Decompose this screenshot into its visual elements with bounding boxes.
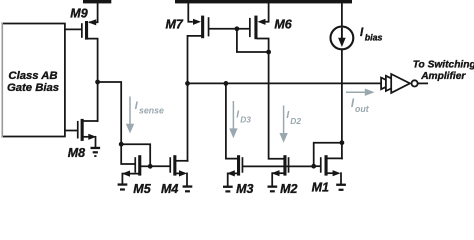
node E: M6 drain / diode tie junction xyxy=(266,50,271,55)
transistor M5 (NMOS) xyxy=(122,155,150,183)
wire M6 drain down to M2 drain (crosses output line) xyxy=(269,52,284,159)
M9 drain wire xyxy=(88,39,98,82)
M1 drain wire xyxy=(328,157,342,159)
svg-text:M9: M9 xyxy=(70,7,87,21)
M6 source wire xyxy=(264,3,269,22)
ground (M4) xyxy=(183,185,193,192)
M3 source wire xyxy=(228,172,237,174)
svg-text:To Switching: To Switching xyxy=(413,60,474,71)
Class AB Gate Bias block xyxy=(2,24,65,137)
transistor M9 (PMOS) xyxy=(65,3,98,82)
wire I_bias down through output line to M1 drain xyxy=(341,49,343,158)
wire node A down to M8 drain xyxy=(97,82,99,121)
M9 channel bar xyxy=(85,21,88,40)
M8 channel bar xyxy=(81,119,84,141)
transistor M6 (PMOS) xyxy=(249,3,269,52)
node I: I_bias / M1 diode junction xyxy=(340,140,345,145)
transistor M7 (PMOS, mirrored) xyxy=(188,3,210,83)
transistor M4 (NMOS) xyxy=(169,155,187,185)
transistor M2 (NMOS, mirrored) xyxy=(272,155,290,185)
M5 source down wire xyxy=(121,174,123,184)
M8 gate wire xyxy=(65,130,77,132)
svg-text:Amplifier: Amplifier xyxy=(420,71,466,82)
transistor M1 (NMOS) xyxy=(320,155,342,183)
svg-text:M2: M2 xyxy=(280,182,297,194)
M8 drain wire xyxy=(84,120,98,122)
M5 source wire xyxy=(124,173,139,175)
I_bias circle xyxy=(331,27,354,50)
node C: M5 drain / M4 gate junction xyxy=(148,164,153,169)
M9 gate wire xyxy=(65,28,81,30)
M8 source arrow xyxy=(88,134,96,140)
M4 source down wire xyxy=(186,173,188,185)
M1 diode loop wire xyxy=(314,143,342,167)
M4 gate bar xyxy=(169,157,171,173)
M2 source wire xyxy=(273,172,284,174)
M8 source wire xyxy=(84,136,89,138)
M4 source arrow xyxy=(179,170,187,176)
M2 gate bar xyxy=(288,157,290,173)
M9 gate bar xyxy=(81,23,83,38)
svg-text:I: I xyxy=(236,109,239,120)
output line xyxy=(188,82,381,84)
svg-text:bias: bias xyxy=(365,33,383,43)
buffer output wire xyxy=(418,82,427,84)
M4 channel bar xyxy=(173,155,176,175)
buffer chain (inverter 2) xyxy=(386,76,402,91)
gate line M3-M2-M1 xyxy=(243,165,313,167)
M1 source down wire xyxy=(340,173,342,183)
M7 channel bar xyxy=(201,16,204,39)
M5 channel bar xyxy=(138,155,141,175)
svg-text:M1: M1 xyxy=(312,181,329,195)
M3 channel bar xyxy=(237,155,240,175)
buffer chain (inverter 1) xyxy=(381,78,394,90)
buffer chain (inverter 3) xyxy=(391,74,410,93)
wire node F down to M4 drain xyxy=(187,83,189,160)
wire node B to M5 drain branch xyxy=(121,144,150,166)
node B: sense branch junction xyxy=(119,142,124,147)
M5 source arrow xyxy=(122,171,130,177)
M3 source down wire xyxy=(227,173,229,185)
arrow I_D2 xyxy=(283,106,285,134)
buffer output bubble xyxy=(412,80,418,86)
node H: M2/M1 gate junction xyxy=(311,164,316,169)
node G: M3 drain / output junction xyxy=(224,81,229,86)
M8 gate bar xyxy=(77,121,79,139)
svg-text:M3: M3 xyxy=(236,182,253,194)
wire node H to M1 gate xyxy=(314,165,320,167)
VDD rail (left segment over M9) xyxy=(83,0,111,3)
diode tie wire from node D to M6 drain xyxy=(237,29,269,52)
M5 gate bar xyxy=(134,157,136,173)
M4 source wire xyxy=(176,172,181,174)
ground (M2) xyxy=(268,186,278,193)
M1 source wire xyxy=(328,172,333,174)
M4 drain wire xyxy=(176,160,187,162)
M2 channel bar xyxy=(283,155,286,175)
transistor M8 (NMOS) xyxy=(65,119,98,147)
M6 channel bar xyxy=(254,16,257,40)
I_bias arrow xyxy=(341,29,343,40)
M8 source down wire xyxy=(95,137,97,147)
svg-text:D3: D3 xyxy=(240,114,251,124)
arrow I_D3 xyxy=(232,101,234,129)
wire from node A to sense branch xyxy=(98,82,122,144)
M7 gate bar xyxy=(208,17,210,36)
node F: M7 drain / M4 drain / output junction xyxy=(185,81,190,86)
arrow I_sense xyxy=(129,97,131,125)
M1 channel bar xyxy=(325,155,328,175)
ground (M1) xyxy=(336,184,346,191)
svg-text:M8: M8 xyxy=(68,146,85,160)
node D: gate tie junction xyxy=(235,26,240,31)
M6 drain wire xyxy=(258,39,269,53)
svg-text:Class AB: Class AB xyxy=(8,70,57,82)
M1 gate bar xyxy=(320,157,322,173)
VDD rail (main segment) xyxy=(175,0,352,3)
M2 source down wire xyxy=(271,173,273,185)
svg-text:M7: M7 xyxy=(166,17,184,31)
svg-text:D2: D2 xyxy=(290,116,301,126)
M7 source arrow xyxy=(193,19,201,25)
I_bias top wire xyxy=(341,3,343,27)
M2 source arrow xyxy=(272,170,280,176)
M7-M6 gate wire xyxy=(209,28,249,30)
M9 source wire xyxy=(90,3,98,22)
M3 source arrow xyxy=(227,170,235,176)
svg-text:M6: M6 xyxy=(274,17,292,31)
transistor M3 (NMOS, mirrored) xyxy=(227,155,244,185)
M5 drain wire xyxy=(141,165,150,167)
svg-text:M4: M4 xyxy=(161,182,178,194)
M7 drain wire xyxy=(188,36,202,84)
current source I_bias xyxy=(331,3,354,49)
M9 source arrow xyxy=(88,19,96,25)
wire node B down to M5 gate xyxy=(121,144,134,164)
gray current arrows xyxy=(126,89,375,143)
node A: M9 drain / M8 drain / sense branch junction xyxy=(95,80,100,85)
M6 source arrow xyxy=(258,19,266,25)
svg-text:M5: M5 xyxy=(133,182,151,194)
svg-text:out: out xyxy=(355,104,370,114)
svg-text:Gate Bias: Gate Bias xyxy=(7,82,59,94)
ground (M3) xyxy=(223,186,233,193)
M3 gate bar xyxy=(242,157,244,173)
svg-text:sense: sense xyxy=(139,106,164,116)
svg-text:I: I xyxy=(286,110,289,121)
ground (M8) xyxy=(91,147,101,157)
M6 gate bar xyxy=(249,18,251,37)
M1 source arrow xyxy=(333,170,341,176)
wire node C to M4 gate xyxy=(150,165,169,167)
M7 source wire xyxy=(188,3,192,22)
ground (M5) xyxy=(118,183,128,190)
arrow I_out xyxy=(346,91,366,93)
wire node G down to M3 drain xyxy=(226,83,237,158)
